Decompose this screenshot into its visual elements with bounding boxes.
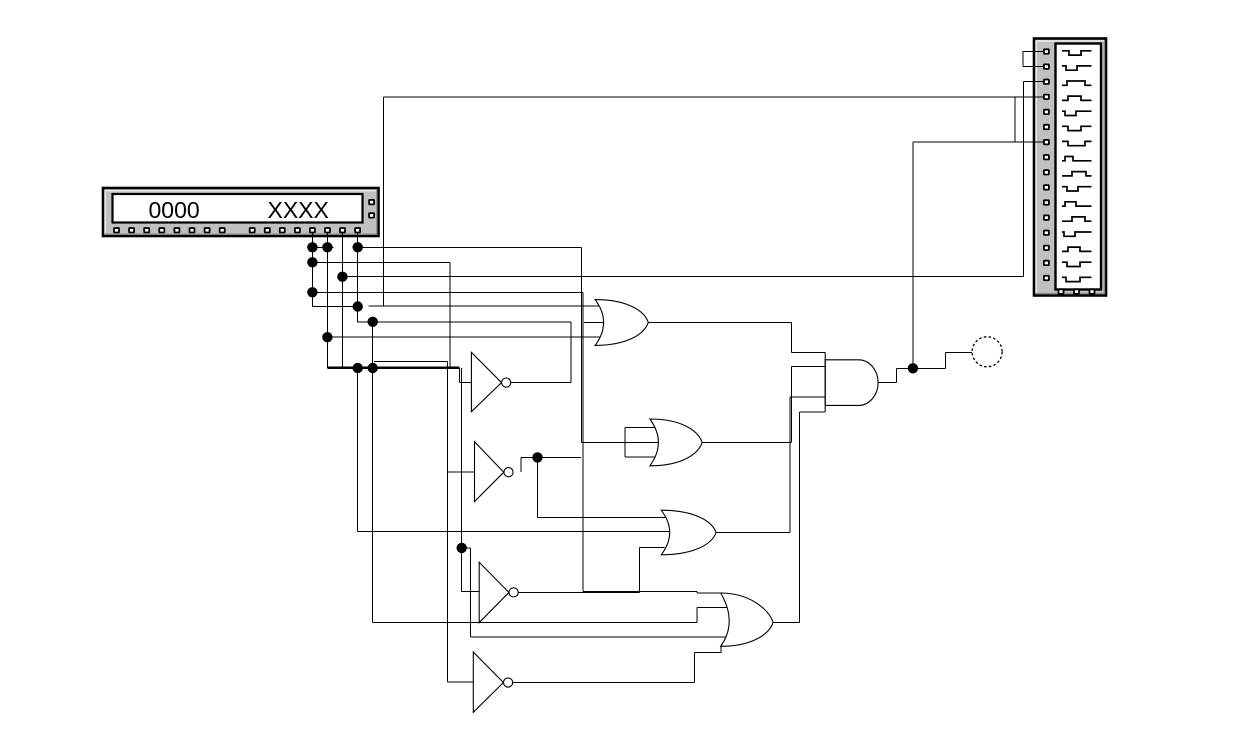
svg-text:0000: 0000 — [149, 197, 200, 223]
svg-text:XXXX: XXXX — [268, 197, 329, 223]
